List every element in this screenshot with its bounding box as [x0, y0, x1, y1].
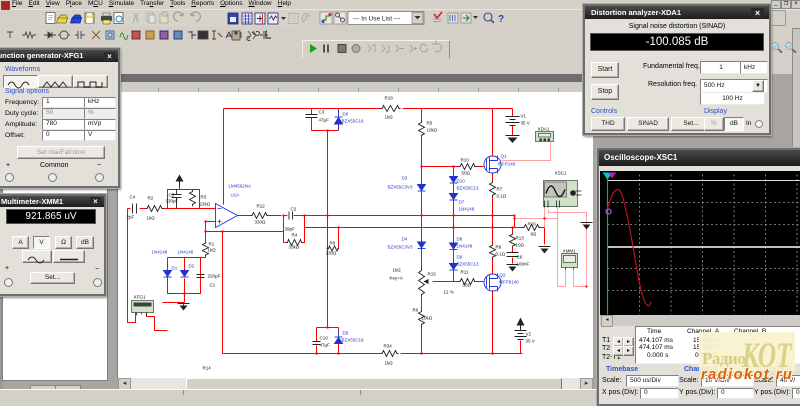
- svg-text:R15: R15: [428, 272, 437, 277]
- svg-text:D1: D1: [172, 266, 178, 271]
- svg-text:10kΩ: 10kΩ: [427, 128, 438, 133]
- svg-text:R9: R9: [330, 241, 336, 246]
- svg-text:D7: D7: [459, 200, 465, 205]
- svg-text:BZX55C3V3: BZX55C3V3: [388, 245, 414, 250]
- svg-text:Q1: Q1: [501, 154, 508, 159]
- svg-text:R7: R7: [497, 187, 503, 192]
- svg-text:D8: D8: [457, 237, 463, 242]
- svg-text:R16: R16: [528, 222, 537, 227]
- svg-text:100nF: 100nF: [517, 262, 530, 267]
- svg-text:V2: V2: [526, 332, 532, 337]
- svg-text:35 V: 35 V: [526, 339, 535, 344]
- svg-text:R2: R2: [148, 196, 154, 201]
- svg-text:D3: D3: [402, 176, 408, 181]
- svg-text:330Ω: 330Ω: [326, 251, 338, 256]
- svg-text:IRFP140: IRFP140: [498, 162, 516, 167]
- svg-text:2pF: 2pF: [127, 215, 135, 220]
- svg-text:220µF: 220µF: [208, 274, 221, 279]
- svg-text:V1: V1: [521, 114, 527, 119]
- svg-text:47µF: 47µF: [319, 118, 330, 123]
- svg-text:47µF: 47µF: [320, 343, 331, 348]
- svg-text:C10: C10: [320, 336, 329, 341]
- svg-text:BZX55C13: BZX55C13: [457, 262, 480, 267]
- svg-text:BZX55C18: BZX55C18: [342, 338, 365, 343]
- svg-text:1N4148: 1N4148: [178, 250, 194, 255]
- svg-text:330Ω: 330Ω: [255, 220, 267, 225]
- svg-text:R6: R6: [413, 308, 419, 313]
- svg-text:U1A: U1A: [231, 193, 240, 198]
- svg-text:D9: D9: [457, 255, 463, 260]
- svg-text:Q2: Q2: [500, 273, 507, 278]
- svg-text:XSC1: XSC1: [555, 171, 567, 176]
- svg-text:XFG1: XFG1: [134, 295, 146, 300]
- svg-text:8Ω: 8Ω: [531, 232, 538, 237]
- svg-text:R3: R3: [201, 195, 207, 200]
- svg-text:D2: D2: [189, 264, 195, 269]
- svg-text:BZX55C13: BZX55C13: [457, 186, 480, 191]
- svg-text:1N4148: 1N4148: [152, 250, 168, 255]
- svg-text:BZX55C18: BZX55C18: [342, 119, 365, 124]
- svg-text:D10: D10: [457, 179, 466, 184]
- svg-text:R4: R4: [292, 233, 298, 238]
- svg-text:D4: D4: [402, 237, 408, 242]
- svg-text:1kΩ: 1kΩ: [385, 361, 394, 366]
- svg-text:LM4562NA: LM4562NA: [229, 184, 252, 189]
- svg-text:IRFP9140: IRFP9140: [499, 280, 520, 285]
- svg-text:R34: R34: [384, 344, 393, 349]
- svg-text:22kΩ: 22kΩ: [200, 202, 211, 207]
- svg-text:330pF: 330pF: [166, 199, 179, 204]
- svg-text:35 V: 35 V: [521, 121, 530, 126]
- svg-text:R13: R13: [516, 236, 525, 241]
- svg-text:1N4148: 1N4148: [459, 207, 475, 212]
- svg-text:C4: C4: [130, 195, 136, 200]
- svg-text:R14: R14: [203, 366, 212, 371]
- svg-text:12 %: 12 %: [444, 290, 454, 295]
- svg-text:C6: C6: [517, 255, 523, 260]
- svg-text:0.1Ω: 0.1Ω: [497, 194, 507, 199]
- svg-text:XDA1: XDA1: [538, 127, 550, 132]
- svg-text:C2: C2: [291, 207, 297, 212]
- svg-text:R18: R18: [385, 96, 394, 101]
- svg-text:1N4148: 1N4148: [457, 244, 473, 249]
- svg-text:R8: R8: [496, 245, 502, 250]
- svg-text:R11: R11: [461, 270, 469, 275]
- svg-text:R12: R12: [257, 204, 266, 209]
- svg-text:1kΩ: 1kΩ: [208, 248, 217, 253]
- svg-text:C3: C3: [319, 110, 325, 115]
- svg-text:50Ω: 50Ω: [462, 171, 471, 176]
- svg-text:BZX55C3V3: BZX55C3V3: [388, 185, 414, 190]
- svg-text:10kΩ: 10kΩ: [422, 316, 433, 321]
- svg-text:0.1Ω: 0.1Ω: [496, 252, 506, 257]
- svg-text:10Ω: 10Ω: [516, 243, 525, 248]
- svg-text:1kΩ: 1kΩ: [385, 115, 394, 120]
- svg-text:Key=A: Key=A: [390, 276, 403, 281]
- svg-text:C5: C5: [169, 193, 175, 198]
- svg-text:1kΩ: 1kΩ: [147, 216, 156, 221]
- svg-text:XMM1: XMM1: [563, 249, 577, 254]
- svg-text:50Ω: 50Ω: [463, 283, 472, 288]
- svg-text:R1: R1: [209, 242, 215, 247]
- svg-text:39pF: 39pF: [285, 227, 296, 232]
- svg-text:1kΩ: 1kΩ: [393, 268, 402, 273]
- svg-text:R10: R10: [461, 158, 470, 163]
- svg-text:33kΩ: 33kΩ: [289, 245, 300, 250]
- svg-text:D6: D6: [343, 112, 349, 117]
- svg-text:R5: R5: [427, 121, 433, 126]
- svg-text:C1: C1: [210, 283, 216, 288]
- svg-text:D5: D5: [343, 331, 349, 336]
